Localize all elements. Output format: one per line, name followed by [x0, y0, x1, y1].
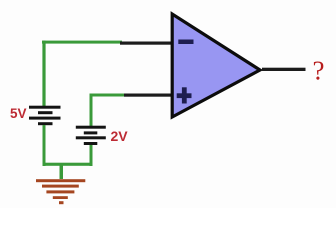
battery V2 2V: long plate: [76, 136, 106, 139]
svg-text:?: ?: [313, 56, 325, 86]
ground: bar 5 (shortest): [59, 201, 64, 204]
wire: black lead into non-inverting input: [124, 94, 174, 97]
wire: green stub down to ground: [60, 163, 64, 179]
battery V1 5V: long plate: [29, 117, 61, 120]
battery V2 2V: long plate (top): [76, 126, 106, 129]
wire: green below 5V battery down to bottom rail: [43, 125, 46, 166]
ground: bar 3: [46, 190, 74, 193]
wire: bottom horizontal green rail: [43, 163, 93, 166]
op-amp non-inverting input plus sign: [177, 93, 192, 98]
ground: bar 4: [53, 196, 68, 199]
wire: vertical green from corner down to 2V battery: [90, 94, 93, 127]
battery V1 5V: short plate: [38, 111, 53, 114]
svg-text:5V: 5V: [10, 106, 27, 121]
ground: bar 2: [42, 185, 79, 188]
wire: green corner+horizontal to non-inverting input: [90, 94, 126, 97]
svg-text:2V: 2V: [111, 128, 129, 144]
wire: left vertical green (top corner down to 5V battery): [42, 41, 45, 107]
op-amp U1 triangle body: [172, 14, 260, 117]
battery V2 2V: short plate: [84, 131, 98, 134]
wire: black lead into inverting input: [120, 42, 174, 45]
wire: top horizontal green (V1 to inverting input): [42, 41, 122, 44]
battery V2 2V: short plate (bottom): [84, 142, 98, 145]
op-amp inverting input minus sign: [178, 40, 193, 45]
wire: green below 2V battery down to bottom rail: [90, 145, 93, 166]
battery V1 5V: short plate (bottom): [38, 122, 53, 125]
wire: black output lead: [262, 68, 306, 71]
battery V1 5V: long plate (top): [29, 106, 61, 109]
ground: bar 1 (longest): [36, 179, 85, 182]
